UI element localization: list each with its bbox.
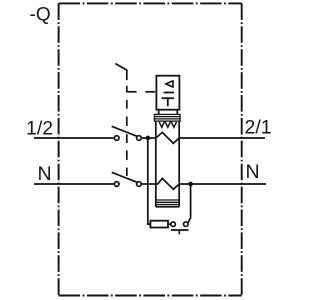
- test button actuator: [171, 230, 189, 234]
- switch blade: phase contact: [112, 126, 137, 136]
- switch blade: neutral contact: [112, 172, 137, 182]
- mechanical linkage to trip coil (horizontal dashed): [127, 91, 155, 93]
- contact circle: phase fixed contact right: [137, 136, 142, 141]
- contact circle: neutral fixed contact left: [114, 182, 119, 187]
- trip release bar symbol: [164, 92, 174, 94]
- wire: neutral winding zigzag through CT: [156, 178, 179, 189]
- actuator handle: [115, 64, 127, 81]
- contact circle: phase fixed contact left: [114, 136, 119, 141]
- summation current transformer frame: [156, 121, 179, 207]
- trip release T symbol: [162, 98, 174, 106]
- CT secondary winding (laminated band): [154, 114, 180, 121]
- wire: test button to neutral junction: [188, 184, 191, 223]
- wire: trip release stubs to core: [159, 110, 178, 115]
- contact circle: test button right: [184, 222, 189, 227]
- contact circle: neutral fixed contact right: [137, 182, 142, 187]
- trip release triangle symbol: [166, 81, 173, 87]
- CT core bottom lamination: [156, 200, 179, 207]
- svg-text:N: N: [38, 163, 52, 185]
- contact circle: test button left: [171, 222, 176, 227]
- wire: phase winding zigzag through CT: [156, 132, 179, 143]
- wire: phase output 2/1: [179, 137, 265, 139]
- CT core teeth: [159, 122, 176, 127]
- junction: phase / test branch: [145, 136, 150, 141]
- trip release U1 (residual current release box): [156, 76, 179, 110]
- wire: resistor to test button: [168, 223, 171, 225]
- wire: phase input 1/2: [34, 137, 114, 139]
- wire: neutral contact to CT: [141, 183, 156, 185]
- test resistor R: [150, 221, 168, 228]
- wire: test branch from phase: [148, 138, 151, 224]
- mechanical linkage (vertical dashed): [126, 86, 128, 176]
- svg-text:1/2: 1/2: [26, 117, 53, 139]
- junction: neutral / test branch: [188, 182, 193, 187]
- svg-text:N: N: [246, 161, 260, 183]
- wire: phase contact to CT: [141, 137, 156, 139]
- svg-text:2/1: 2/1: [245, 116, 272, 138]
- svg-text:-Q: -Q: [30, 4, 51, 25]
- wire: neutral output N: [179, 183, 266, 185]
- device boundary -Q (dash-dot enclosure): [59, 3, 242, 295]
- wire: neutral input N: [34, 183, 114, 185]
